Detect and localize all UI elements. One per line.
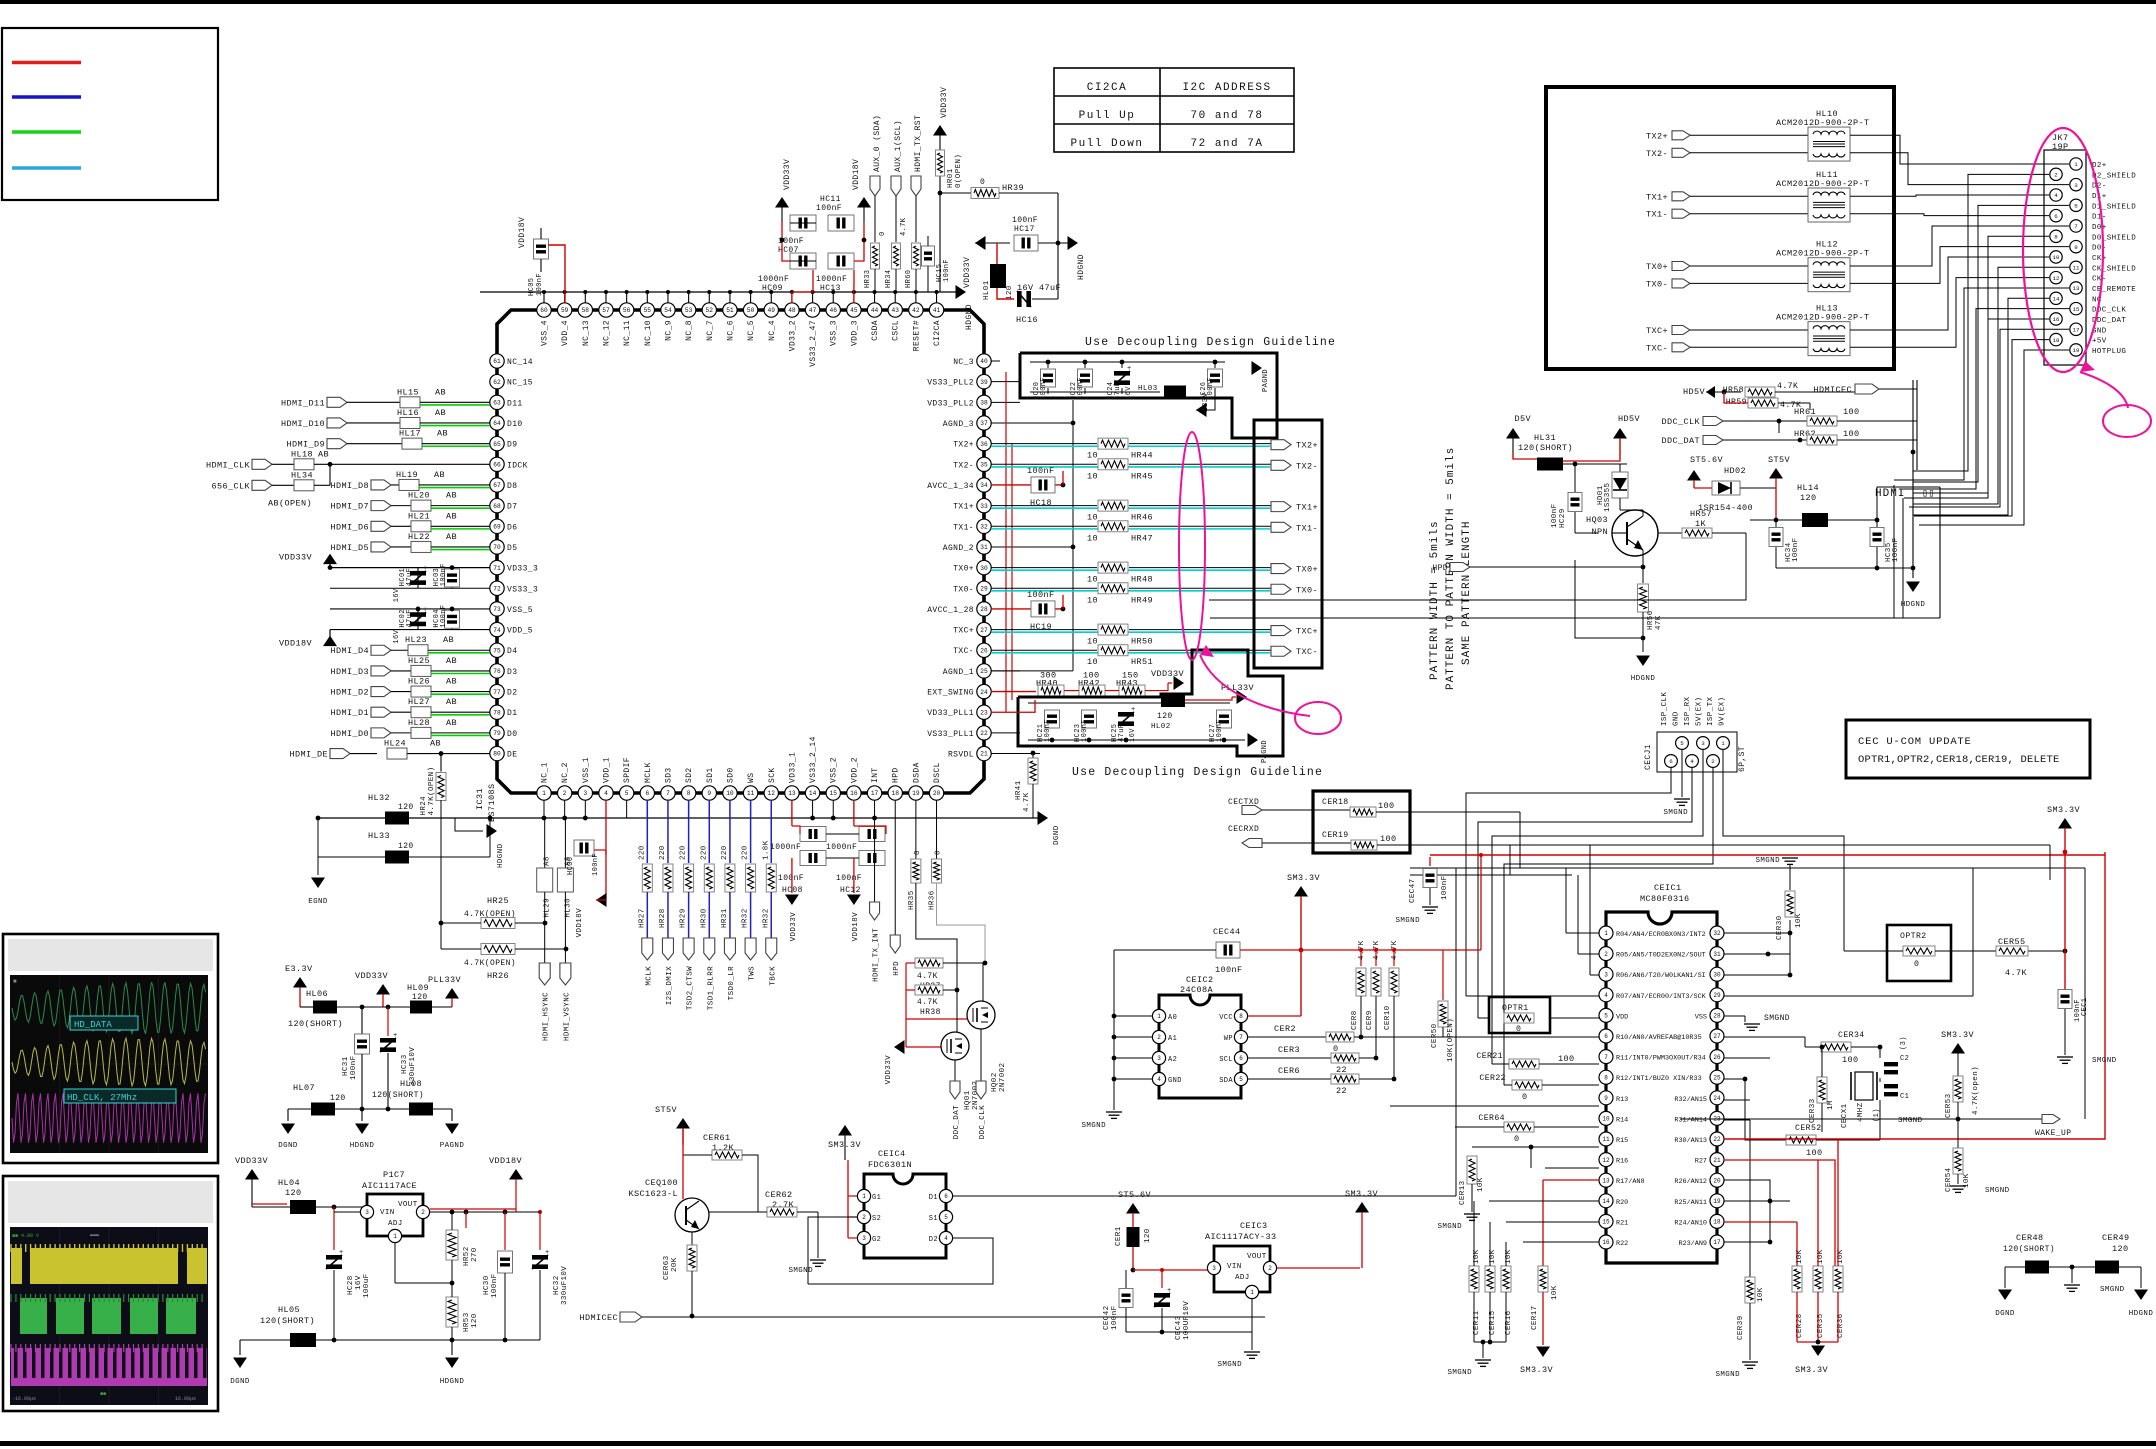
svg-text:ISP_TX: ISP_TX (1707, 696, 1715, 726)
svg-text:HDMI_D7: HDMI_D7 (330, 502, 369, 512)
svg-text:100nF: 100nF (1111, 1305, 1119, 1330)
svg-text:13: 13 (788, 790, 796, 797)
svg-text:CER2: CER2 (1274, 1024, 1296, 1034)
svg-text:+: + (1127, 365, 1132, 373)
svg-text:HL31: HL31 (1534, 433, 1556, 443)
svg-text:CER48: CER48 (2016, 1233, 2044, 1243)
svg-text:VDD_2: VDD_2 (850, 757, 859, 783)
svg-text:R23/AN9: R23/AN9 (1678, 1240, 1707, 1248)
svg-text:4.7K: 4.7K (1777, 382, 1798, 391)
svg-text:HL19: HL19 (396, 470, 418, 480)
svg-text:1: 1 (393, 1233, 397, 1240)
svg-text:RESET#: RESET# (912, 320, 921, 351)
svg-text:E3.3V: E3.3V (285, 964, 313, 974)
svg-text:30: 30 (980, 565, 988, 572)
svg-text:SM3.3V: SM3.3V (1941, 1030, 1975, 1040)
svg-text:D10: D10 (507, 420, 523, 429)
svg-text:100nF: 100nF (350, 1055, 358, 1080)
svg-text:56: 56 (623, 307, 631, 314)
svg-text:32: 32 (1713, 930, 1721, 937)
svg-text:■: ■ (13, 978, 17, 985)
svg-text:CEIC2: CEIC2 (1186, 975, 1214, 985)
svg-text:TX2+: TX2+ (1296, 441, 1318, 451)
svg-text:EXT_SWING: EXT_SWING (927, 689, 974, 698)
svg-text:NC_15: NC_15 (507, 379, 533, 388)
svg-text:C2: C2 (1900, 1055, 1909, 1063)
svg-text:100nF: 100nF (816, 204, 842, 213)
svg-text:64: 64 (493, 420, 501, 427)
svg-text:HR50: HR50 (1131, 637, 1153, 647)
svg-text:6: 6 (2054, 213, 2058, 220)
svg-text:S2: S2 (872, 1215, 881, 1223)
svg-text:5V(EX): 5V(EX) (1696, 697, 1704, 726)
svg-text:CER19: CER19 (1322, 831, 1349, 840)
svg-text:R25/AN11: R25/AN11 (1674, 1199, 1707, 1207)
svg-text:SMGND: SMGND (1663, 809, 1688, 817)
svg-text:P1C7: P1C7 (383, 1170, 405, 1180)
svg-text:▯▯: ▯▯ (1922, 489, 1935, 500)
svg-text:HL01: HL01 (983, 280, 991, 300)
svg-text:KSC1623-L: KSC1623-L (628, 1189, 678, 1199)
svg-text:AGND_3: AGND_3 (943, 420, 974, 429)
svg-text:HDGND: HDGND (1077, 254, 1086, 280)
svg-text:D0+: D0+ (2092, 224, 2107, 232)
svg-text:SM3.3V: SM3.3V (1520, 1365, 1554, 1375)
svg-text:14: 14 (1602, 1198, 1610, 1205)
svg-text:RSVDL: RSVDL (948, 751, 974, 760)
svg-text:HDMI_D5: HDMI_D5 (330, 543, 369, 553)
svg-text:G2: G2 (872, 1236, 881, 1244)
svg-text:42: 42 (912, 307, 920, 314)
svg-text:AVCC_1_28: AVCC_1_28 (927, 606, 974, 615)
svg-text:9V(EX): 9V(EX) (1719, 697, 1727, 726)
svg-text:HC13: HC13 (820, 284, 841, 293)
svg-text:PLL33V: PLL33V (428, 975, 462, 985)
svg-text:6: 6 (1604, 1033, 1608, 1040)
svg-text:100nF: 100nF (1027, 590, 1055, 600)
svg-text:47: 47 (809, 307, 817, 314)
svg-text:28: 28 (980, 606, 988, 613)
svg-text:CER13: CER13 (1459, 1180, 1467, 1205)
svg-text:D11: D11 (507, 399, 523, 408)
svg-text:D0_SHIELD: D0_SHIELD (2092, 234, 2136, 242)
svg-text:2: 2 (2054, 172, 2058, 179)
svg-text:10K: 10K (1796, 1249, 1804, 1264)
svg-text:TX2+: TX2+ (1646, 131, 1668, 141)
svg-text:10K: 10K (1551, 1285, 1559, 1300)
svg-text:50: 50 (747, 307, 755, 314)
svg-text:HDMI_TX_INT: HDMI_TX_INT (873, 928, 881, 982)
svg-text:ST5.6V: ST5.6V (1690, 455, 1724, 465)
svg-text:A2: A2 (1168, 1056, 1177, 1064)
svg-text:TXC+: TXC+ (1296, 627, 1318, 637)
svg-text:4: 4 (2054, 192, 2058, 199)
svg-text:DE: DE (507, 751, 517, 760)
svg-text:AGND_1: AGND_1 (943, 668, 974, 677)
svg-text:+: + (1167, 1287, 1172, 1295)
svg-text:NC_9: NC_9 (664, 320, 673, 341)
svg-text:VOUT: VOUT (398, 1201, 418, 1209)
svg-text:VDD18V: VDD18V (518, 217, 527, 248)
svg-text:100: 100 (1843, 407, 1860, 417)
svg-text:6: 6 (645, 790, 649, 797)
svg-text:VDD33V: VDD33V (963, 257, 972, 288)
svg-text:+5V: +5V (2092, 338, 2107, 346)
svg-text:HL05: HL05 (278, 1305, 300, 1315)
svg-text:NPN: NPN (1591, 527, 1608, 537)
svg-text:HQ01: HQ01 (964, 1090, 972, 1110)
svg-text:100nF: 100nF (491, 1273, 499, 1298)
svg-text:23: 23 (980, 709, 988, 716)
svg-text:CK_SHIELD: CK_SHIELD (2092, 265, 2136, 273)
svg-text:16: 16 (2053, 316, 2060, 323)
svg-text:HD_DATA: HD_DATA (74, 1020, 112, 1030)
svg-text:HOTPLUG: HOTPLUG (2092, 348, 2126, 356)
svg-text:HL15: HL15 (397, 387, 419, 397)
svg-text:57: 57 (602, 307, 610, 314)
svg-text:CER64: CER64 (1478, 1114, 1505, 1123)
svg-text:ACM2012D-900-2P-T: ACM2012D-900-2P-T (1776, 249, 1870, 259)
svg-text:HDMI_CLK: HDMI_CLK (206, 460, 251, 470)
svg-text:ST5V: ST5V (1768, 455, 1791, 465)
svg-text:10: 10 (1087, 595, 1098, 605)
svg-text:SPDIF: SPDIF (623, 757, 632, 783)
svg-text:19: 19 (1713, 1198, 1721, 1205)
svg-text:54: 54 (664, 307, 672, 314)
svg-text:CER21: CER21 (1476, 1052, 1503, 1061)
svg-text:SM3.3V: SM3.3V (1287, 873, 1321, 883)
svg-text:TSD0_LR: TSD0_LR (728, 966, 736, 1000)
svg-text:20: 20 (933, 790, 941, 797)
svg-text:CEC43: CEC43 (1175, 1315, 1183, 1340)
svg-text:0: 0 (914, 850, 922, 855)
svg-text:AVCC_1_34: AVCC_1_34 (927, 482, 974, 491)
svg-text:HL07: HL07 (293, 1083, 315, 1093)
svg-text:TX2-: TX2- (1646, 149, 1668, 159)
svg-text:VS33_PLL1: VS33_PLL1 (927, 730, 974, 739)
svg-text:D2: D2 (507, 689, 517, 698)
svg-text:CER34: CER34 (1838, 1031, 1865, 1040)
svg-text:CEC42: CEC42 (1103, 1305, 1111, 1330)
svg-text:0: 0 (935, 850, 943, 855)
svg-text:HR32: HR32 (742, 908, 750, 928)
svg-text:HC28: HC28 (347, 1275, 355, 1295)
svg-text:HR28: HR28 (659, 908, 667, 928)
svg-text:70 and 78: 70 and 78 (1191, 110, 1264, 122)
svg-text:20K: 20K (671, 1257, 679, 1272)
svg-text:100nF: 100nF (836, 874, 862, 883)
svg-text:120(SHORT): 120(SHORT) (288, 1019, 343, 1029)
svg-text:TXC-: TXC- (1296, 647, 1318, 657)
svg-text:100nF: 100nF (1792, 537, 1800, 562)
svg-text:HDMI_D8: HDMI_D8 (330, 481, 369, 491)
svg-text:D2-: D2- (2092, 183, 2107, 191)
svg-text:6P,ST: 6P,ST (1738, 746, 1747, 772)
svg-text:VDD_3: VDD_3 (850, 320, 859, 346)
svg-text:MC80F0316: MC80F0316 (1640, 894, 1690, 904)
svg-text:220: 220 (659, 845, 667, 860)
svg-text:TSD2_CTSW: TSD2_CTSW (687, 966, 695, 1010)
svg-text:11: 11 (2073, 265, 2080, 272)
svg-text:9: 9 (2074, 244, 2078, 251)
svg-text:HR34: HR34 (885, 270, 893, 288)
svg-text:10K: 10K (1795, 913, 1803, 928)
svg-text:18: 18 (2053, 337, 2060, 344)
svg-text:80: 80 (493, 751, 501, 758)
svg-text:D0-: D0- (2092, 245, 2107, 253)
svg-text:NC_4: NC_4 (768, 320, 777, 341)
svg-text:VSS_1: VSS_1 (582, 757, 591, 783)
svg-text:15: 15 (2073, 306, 2080, 313)
svg-text:D2: D2 (929, 1236, 938, 1244)
svg-text:120: 120 (2112, 1244, 2129, 1254)
svg-text:I2C ADDRESS: I2C ADDRESS (1182, 82, 1271, 94)
svg-text:HL02: HL02 (1151, 723, 1171, 731)
svg-text:VDD18V: VDD18V (852, 159, 861, 190)
svg-text:SD0: SD0 (726, 767, 735, 783)
svg-text:CER61: CER61 (703, 1133, 731, 1143)
svg-text:31: 31 (980, 544, 988, 551)
svg-text:2: 2 (563, 790, 567, 797)
svg-text:CEIC3: CEIC3 (1240, 1221, 1268, 1231)
svg-text:HL23: HL23 (405, 635, 427, 645)
svg-text:HR41: HR41 (1015, 780, 1023, 800)
svg-text:100nF: 100nF (778, 874, 804, 883)
svg-text:R21: R21 (1616, 1219, 1628, 1227)
svg-text:13: 13 (1602, 1177, 1610, 1184)
svg-text:AUX_0 (SDA): AUX_0 (SDA) (873, 115, 882, 172)
svg-text:OPTR1: OPTR1 (1502, 1004, 1529, 1013)
svg-text:SCK: SCK (768, 767, 777, 783)
svg-text:12: 12 (768, 790, 776, 797)
svg-text:HL21: HL21 (408, 511, 430, 521)
svg-text:4.7K: 4.7K (2005, 968, 2028, 978)
svg-text:VD33_2: VD33_2 (788, 320, 797, 351)
svg-text:CSDA: CSDA (871, 320, 880, 341)
svg-text:TX1-: TX1- (1296, 523, 1318, 533)
svg-text:HDMI_VSYNC: HDMI_VSYNC (563, 992, 571, 1041)
svg-text:2: 2 (862, 1214, 866, 1221)
svg-text:AB: AB (446, 718, 457, 728)
svg-text:■■ 4.00 V: ■■ 4.00 V (12, 1233, 39, 1239)
svg-text:4.7K(OPEN): 4.7K(OPEN) (464, 959, 516, 968)
svg-text:78: 78 (493, 709, 501, 716)
svg-text:AB: AB (443, 635, 454, 645)
svg-text:65: 65 (493, 441, 501, 448)
svg-text:IDCK: IDCK (507, 461, 528, 470)
svg-text:CEC44: CEC44 (1213, 927, 1241, 937)
svg-text:NC_13: NC_13 (582, 320, 591, 346)
svg-text:HR36: HR36 (929, 890, 937, 910)
svg-text:3: 3 (1604, 971, 1608, 978)
svg-text:AB(OPEN): AB(OPEN) (268, 498, 312, 508)
svg-text:39: 39 (980, 379, 988, 386)
svg-text:HDGND: HDGND (1631, 675, 1656, 683)
svg-text:HC30: HC30 (483, 1275, 491, 1295)
svg-text:8: 8 (687, 790, 691, 797)
svg-text:SDA: SDA (1219, 1077, 1233, 1085)
svg-text:HL18: HL18 (291, 449, 313, 459)
svg-text:16.00µs: 16.00µs (175, 1396, 196, 1402)
svg-text:100nF: 100nF (440, 605, 448, 628)
svg-text:DSDA: DSDA (912, 762, 921, 783)
svg-text:0: 0 (1522, 1092, 1528, 1102)
svg-text:VDD33V: VDD33V (279, 553, 313, 563)
svg-text:AB: AB (446, 677, 457, 687)
svg-text:21: 21 (980, 751, 988, 758)
svg-text:CER18: CER18 (1322, 798, 1349, 807)
svg-text:15: 15 (1602, 1219, 1610, 1226)
svg-text:WAKE_UP: WAKE_UP (2035, 1129, 2071, 1138)
svg-text:2N7002: 2N7002 (999, 1063, 1007, 1092)
svg-text:CECRXD: CECRXD (1228, 825, 1259, 834)
svg-text:HC16: HC16 (1016, 315, 1038, 325)
svg-text:VS33_3: VS33_3 (507, 585, 538, 594)
svg-text:AB: AB (446, 656, 457, 666)
svg-text:4.7K: 4.7K (917, 998, 938, 1007)
svg-text:INT: INT (871, 767, 880, 783)
svg-text:HDMI_TX_RST: HDMI_TX_RST (914, 115, 923, 172)
svg-text:TX2-: TX2- (953, 461, 974, 470)
svg-text:R07/AN7/ECR00/INT3/SCK: R07/AN7/ECR00/INT3/SCK (1616, 993, 1707, 1001)
svg-text:3: 3 (583, 790, 587, 797)
svg-text:TX1+: TX1+ (1646, 192, 1668, 202)
svg-text:CK-: CK- (2092, 276, 2107, 284)
svg-text:HR60: HR60 (905, 270, 913, 288)
svg-text:SMGND: SMGND (1395, 917, 1420, 925)
svg-text:HL28: HL28 (408, 718, 430, 728)
svg-text:10K: 10K (1757, 1287, 1765, 1302)
svg-text:ISP_RX: ISP_RX (1684, 696, 1692, 726)
svg-text:VSS: VSS (1695, 1013, 1707, 1021)
svg-text:HR26: HR26 (487, 971, 509, 981)
svg-text:CER17: CER17 (1531, 1305, 1539, 1330)
svg-text:VDD33V: VDD33V (783, 159, 792, 190)
svg-text:TX0-: TX0- (1296, 585, 1318, 595)
svg-text:HC33: HC33 (401, 1054, 409, 1074)
svg-text:HDMICEC: HDMICEC (1813, 385, 1852, 395)
svg-text:HR30: HR30 (700, 908, 708, 928)
svg-text:120: 120 (1144, 1228, 1152, 1243)
svg-text:CER52: CER52 (1795, 1124, 1822, 1133)
svg-text:5: 5 (944, 1214, 948, 1221)
svg-text:HDMI_D0: HDMI_D0 (330, 729, 369, 739)
svg-text:G1: G1 (872, 1194, 881, 1202)
svg-text:4: 4 (604, 790, 608, 797)
svg-text:2: 2 (1711, 758, 1715, 765)
svg-text:0: 0 (1516, 1025, 1521, 1034)
svg-text:100: 100 (1380, 834, 1397, 844)
svg-text:HR33: HR33 (864, 270, 872, 288)
svg-text:TX0-: TX0- (1646, 279, 1668, 289)
svg-text:D0: D0 (507, 730, 517, 739)
svg-text:D1_SHIELD: D1_SHIELD (2092, 203, 2136, 211)
svg-text:DGND: DGND (278, 1142, 298, 1150)
svg-text:+: + (423, 606, 428, 614)
svg-text:EGND: EGND (308, 898, 328, 906)
svg-text:220: 220 (742, 845, 750, 860)
svg-text:OPTR2: OPTR2 (1900, 932, 1927, 941)
svg-text:HC17: HC17 (1014, 225, 1035, 234)
svg-text:CI2CA: CI2CA (933, 320, 942, 346)
svg-text:HR31: HR31 (721, 908, 729, 928)
svg-text:100nF: 100nF (1027, 466, 1055, 476)
svg-text:5: 5 (1680, 740, 1684, 747)
svg-text:330uF10V: 330uF10V (561, 1266, 569, 1305)
svg-text:21: 21 (1713, 1157, 1721, 1164)
svg-text:R11/INT0/PWM3OX0UT/R34: R11/INT0/PWM3OX0UT/R34 (1616, 1055, 1706, 1063)
svg-text:D2+: D2+ (2092, 162, 2107, 170)
svg-text:SMGND: SMGND (1764, 1014, 1790, 1023)
svg-text:10K(OPEN): 10K(OPEN) (1447, 1018, 1455, 1062)
svg-text:120: 120 (1157, 712, 1173, 721)
svg-text:79: 79 (493, 730, 501, 737)
svg-text:62: 62 (493, 379, 501, 386)
svg-text:76: 76 (493, 668, 501, 675)
svg-text:VD33_3: VD33_3 (507, 565, 538, 574)
svg-text:1000nF: 1000nF (816, 275, 847, 284)
svg-text:R12/INT1/BUZ0 XIN/R33: R12/INT1/BUZ0 XIN/R33 (1616, 1075, 1702, 1083)
svg-text:120(SHORT): 120(SHORT) (1518, 443, 1573, 453)
svg-text:47K: 47K (1655, 615, 1663, 630)
svg-text:1: 1 (1721, 740, 1725, 747)
svg-text:100nF: 100nF (1551, 503, 1559, 528)
svg-text:NC_11: NC_11 (623, 320, 632, 346)
svg-text:HDMICEC: HDMICEC (579, 1313, 618, 1323)
svg-text:ADJ: ADJ (388, 1220, 403, 1228)
svg-text:10: 10 (1087, 471, 1098, 481)
svg-text:0: 0 (1333, 1044, 1339, 1054)
svg-text:7: 7 (1604, 1054, 1608, 1061)
svg-text:4.7K(OPEN): 4.7K(OPEN) (428, 767, 436, 816)
svg-text:D8: D8 (507, 482, 517, 491)
svg-text:70: 70 (493, 544, 501, 551)
svg-text:SM3.3V: SM3.3V (2047, 805, 2081, 815)
svg-text:1: 1 (2074, 161, 2078, 168)
svg-text:63: 63 (493, 400, 501, 407)
svg-text:SMGND: SMGND (1081, 1122, 1106, 1130)
svg-text:PAGND: PAGND (1262, 369, 1270, 392)
svg-text:120: 120 (285, 1188, 302, 1198)
svg-text:CER63: CER63 (663, 1255, 671, 1280)
svg-text:22: 22 (980, 730, 988, 737)
svg-text:D2_SHIELD: D2_SHIELD (2092, 172, 2136, 180)
svg-text:D5: D5 (507, 544, 517, 553)
svg-text:NC_7: NC_7 (706, 320, 715, 341)
svg-text:22: 22 (1336, 1065, 1347, 1075)
svg-text:HDMI: HDMI (1875, 488, 1905, 500)
svg-text:1000nF: 1000nF (758, 275, 789, 284)
svg-text:SMGND: SMGND (2092, 1057, 2117, 1065)
svg-text:VSS_5: VSS_5 (507, 606, 533, 615)
svg-text:VDD33V: VDD33V (235, 1156, 269, 1166)
svg-text:100uF: 100uF (363, 1273, 371, 1298)
svg-text:TX0+: TX0+ (953, 565, 974, 574)
svg-text:R17/AN8: R17/AN8 (1616, 1178, 1645, 1186)
svg-text:R13: R13 (1616, 1096, 1628, 1104)
svg-text:0: 0 (1514, 1134, 1520, 1144)
svg-text:59: 59 (561, 307, 569, 314)
svg-text:SMGND: SMGND (1898, 1117, 1923, 1125)
svg-text:HC19: HC19 (1030, 622, 1052, 632)
svg-text:26: 26 (1713, 1054, 1721, 1061)
svg-text:3: 3 (2074, 182, 2078, 189)
svg-text:SMGND: SMGND (1447, 1369, 1472, 1377)
svg-text:HR52: HR52 (463, 1246, 471, 1266)
svg-text:4.7K: 4.7K (917, 972, 938, 981)
svg-text:11: 11 (747, 790, 755, 797)
svg-text:AB: AB (435, 408, 446, 418)
